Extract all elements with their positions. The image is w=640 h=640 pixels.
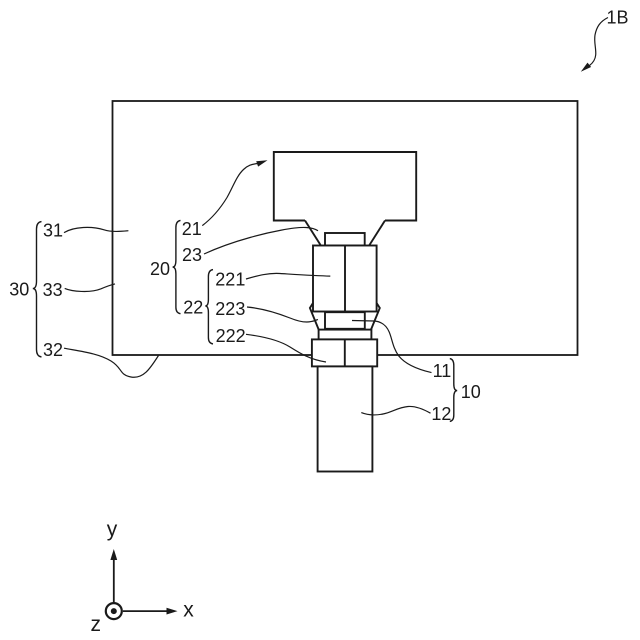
svg-text:223: 223 bbox=[215, 299, 245, 319]
svg-text:23: 23 bbox=[182, 245, 202, 265]
svg-text:1B: 1B bbox=[607, 7, 629, 27]
brace 10 bbox=[450, 359, 457, 422]
brace 30 bbox=[33, 222, 42, 357]
y axis bbox=[113, 558, 115, 603]
leader 222 bbox=[246, 334, 326, 362]
leader 23 bbox=[204, 227, 318, 254]
leader 21 arrow bbox=[202, 164, 257, 226]
svg-text:z: z bbox=[91, 613, 102, 636]
base plate 30 (outer box) bbox=[113, 101, 578, 355]
collar centerline bbox=[344, 339, 346, 366]
brace 20 bbox=[173, 220, 181, 313]
svg-text:32: 32 bbox=[43, 340, 63, 360]
leader 31 bbox=[64, 227, 128, 232]
svg-text:33: 33 bbox=[43, 280, 63, 300]
brace 22 bbox=[205, 270, 213, 344]
svg-text:221: 221 bbox=[215, 270, 245, 290]
taper 223 right flank bbox=[371, 303, 380, 330]
leader 12 bbox=[361, 406, 430, 414]
svg-text:11: 11 bbox=[433, 361, 452, 381]
collar 222 bbox=[312, 339, 377, 366]
body centerline bbox=[344, 246, 346, 312]
coordinate axes origin (z out of page) bbox=[106, 603, 122, 619]
svg-text:21: 21 bbox=[182, 219, 202, 239]
svg-text:20: 20 bbox=[150, 259, 170, 279]
svg-text:222: 222 bbox=[216, 326, 246, 346]
body 221 bbox=[313, 246, 377, 312]
step ring bbox=[319, 330, 372, 340]
leader 32 bbox=[64, 348, 159, 377]
svg-text:22: 22 bbox=[183, 298, 203, 318]
svg-text:x: x bbox=[183, 599, 194, 622]
arrow 1B bbox=[590, 18, 609, 66]
stem 12 bbox=[318, 366, 373, 471]
funnel slant right bbox=[369, 221, 385, 246]
leader 223 bbox=[247, 307, 318, 322]
leader 221 bbox=[246, 273, 330, 279]
svg-text:y: y bbox=[107, 518, 118, 541]
neck 23 bbox=[325, 233, 365, 246]
svg-text:30: 30 bbox=[9, 279, 29, 299]
svg-text:31: 31 bbox=[43, 221, 63, 241]
svg-text:10: 10 bbox=[461, 382, 481, 402]
leader 33 bbox=[65, 284, 115, 292]
svg-text:12: 12 bbox=[431, 404, 451, 424]
taper 223 left flank bbox=[310, 303, 319, 330]
funnel slant left bbox=[305, 221, 321, 246]
cap 21 (head with funnel opening) bbox=[274, 152, 416, 221]
x axis bbox=[123, 610, 168, 612]
inner sleeve 11 bbox=[325, 312, 365, 329]
leader 11 bbox=[352, 321, 432, 373]
